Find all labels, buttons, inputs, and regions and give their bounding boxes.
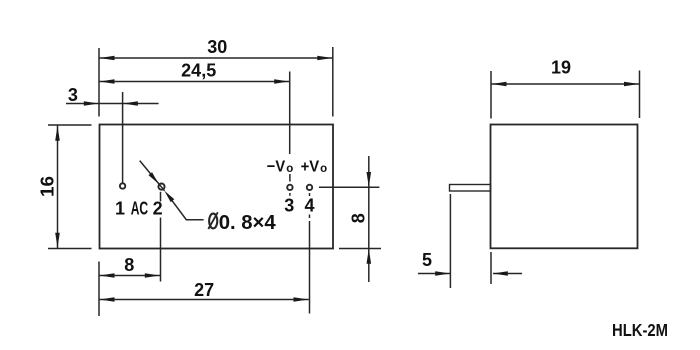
svg-text:3: 3 <box>284 196 294 216</box>
arrow dim19 left <box>492 82 507 87</box>
svg-text:27: 27 <box>194 280 214 300</box>
svg-text:16: 16 <box>37 176 57 197</box>
dim 8 right: top extension from pin row <box>319 186 379 188</box>
arrow dim5 right (pointing left) <box>493 271 508 276</box>
arrow dim30 left <box>100 56 115 61</box>
dim 16 line <box>57 126 59 249</box>
pin 3 center dash above <box>289 174 291 182</box>
arrow dim3 left (pointing right at x=99) <box>84 101 99 106</box>
dim 24,5 line <box>99 81 289 83</box>
arrow dim24,5 left <box>100 79 115 84</box>
dim 8 bottom: extension from pin 2 <box>160 218 162 282</box>
svg-text:+V: +V <box>301 159 320 176</box>
svg-text:o: o <box>286 163 293 175</box>
pin 3 center dash below <box>289 193 291 196</box>
phi symbol ellipse <box>209 214 217 229</box>
svg-text:30: 30 <box>207 37 227 57</box>
svg-text:o: o <box>320 163 327 175</box>
dim 8 bottom: extension from body left <box>98 262 100 317</box>
dim 24,5 extension to pin 3 <box>289 72 291 155</box>
svg-text:5: 5 <box>422 250 432 270</box>
arrow dim3 right (pointing left at x=122.6) <box>123 101 138 106</box>
dim 8 right: bottom extension from body bottom <box>339 248 381 250</box>
pin 4 hole <box>307 185 312 190</box>
arrow dim27 left <box>100 297 115 302</box>
leader upper segment to pin 2 (passes through hole) <box>140 161 165 191</box>
svg-text:AC: AC <box>131 199 148 219</box>
arrow dim16 top <box>55 126 60 141</box>
dim 27 line <box>99 299 309 301</box>
dim 5 left arrow line <box>418 273 450 275</box>
arrow dim8 right bottom (pointing up) <box>367 249 372 264</box>
dim 16 bottom extension <box>48 248 92 250</box>
side view pin tab <box>450 185 491 192</box>
dim 5 extension left (pin end) <box>449 194 451 288</box>
pin 1 hole <box>120 183 125 188</box>
svg-text:24,5: 24,5 <box>181 60 216 80</box>
dim 30 extension line left <box>98 48 100 117</box>
dim 5 right arrow line <box>493 273 522 275</box>
phi symbol slash <box>208 212 218 229</box>
dim 19 extension right <box>639 71 641 119</box>
dim 5 extension right (body edge) <box>490 252 492 284</box>
svg-text:−V: −V <box>267 159 286 176</box>
dim 19 line <box>491 83 640 85</box>
pin 2 extension segment above label 2 <box>160 192 162 202</box>
arrow dim24,5 right <box>274 79 289 84</box>
arrow dim5 left (pointing right) <box>435 271 450 276</box>
front view body outline <box>100 125 334 249</box>
arrow leader upper (pointing down-right at pin2) <box>149 172 159 184</box>
pin 2 hole <box>158 184 164 190</box>
dim 8 bottom line <box>99 275 161 277</box>
arrow dim19 right <box>624 82 639 87</box>
pin 3 hole <box>287 185 292 190</box>
dim 30 extension line right <box>332 47 334 117</box>
svg-text:3: 3 <box>68 85 78 105</box>
svg-text:1: 1 <box>115 199 125 219</box>
svg-text:2: 2 <box>153 199 163 219</box>
dim 19 extension left <box>490 71 492 119</box>
arrow dim16 bottom <box>55 233 60 248</box>
svg-text:0. 8×4: 0. 8×4 <box>219 211 277 234</box>
arrow dim8 bottom right <box>145 273 160 278</box>
dim 3 extension to pin 1 <box>122 92 124 183</box>
svg-text:19: 19 <box>551 58 571 78</box>
dim 8 right: dimension line <box>368 156 370 282</box>
dim 30 line <box>99 57 333 59</box>
arrow dim8 right top (pointing down) <box>367 172 372 187</box>
dim 3 line with outside arrow tails <box>66 103 159 105</box>
arrow dim30 right <box>317 56 332 61</box>
svg-text:8: 8 <box>348 213 368 223</box>
dim 27 extension from pin 4 (center line) <box>309 193 311 196</box>
svg-text:4: 4 <box>304 196 314 216</box>
svg-text:8: 8 <box>124 255 134 275</box>
dim 16 top extension <box>48 124 92 126</box>
svg-text:HLK-2M: HLK-2M <box>612 320 668 340</box>
arrow leader lower (pointing up-left at pin2) <box>164 191 174 203</box>
arrow dim8 bottom left <box>100 273 115 278</box>
leader lower segment from pin 2 to label <box>171 199 204 220</box>
side view body outline <box>491 125 638 249</box>
arrow dim27 right <box>294 297 309 302</box>
